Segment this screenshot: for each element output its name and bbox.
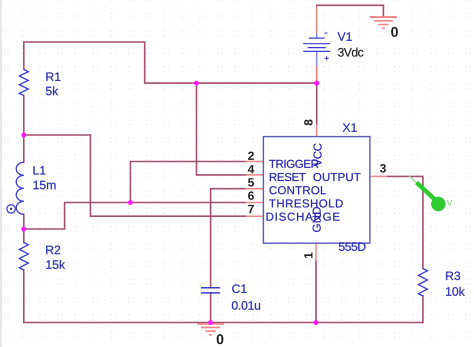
V1 bottom wire pink segment xyxy=(316,66,318,81)
resistor R1 xyxy=(19,70,28,96)
node C1/ground junction xyxy=(208,320,213,325)
value 15k xyxy=(46,260,65,269)
wire node TRI riser to pin2 xyxy=(130,162,245,203)
pin number 6 xyxy=(248,191,254,199)
voltage probe V xyxy=(409,175,446,211)
node TRI riser junction xyxy=(128,200,133,205)
pin 1 stub xyxy=(315,243,317,261)
wire pin8 VCC riser xyxy=(316,83,318,124)
node L1/R2/THR junction xyxy=(21,227,26,232)
pin 4 stub xyxy=(246,174,264,176)
wire node DIS: R1 junction to pin7 xyxy=(24,135,246,216)
pin number 8 xyxy=(304,119,312,125)
pin name THRESHOLD xyxy=(269,199,343,207)
node V+/pin8 junction xyxy=(314,81,319,86)
battery V1 xyxy=(316,33,318,66)
ground 0 (top right) xyxy=(370,17,397,28)
probe label V xyxy=(447,200,453,206)
wire R1 bottom to L1 top xyxy=(23,96,25,163)
label R3 xyxy=(446,271,460,280)
wire node THR: L1/R2 junction to pin6 xyxy=(24,203,246,230)
wire pin3 OUTPUT to R3 top xyxy=(388,176,423,268)
wire R2 bottom + bottom ground rail xyxy=(24,270,423,323)
resistor R3 xyxy=(418,269,427,296)
pin number 3 xyxy=(380,164,386,173)
pin 6 stub xyxy=(246,202,264,204)
pin name CONTROL xyxy=(269,186,326,194)
value 15m xyxy=(34,181,56,190)
capacitor C1 xyxy=(201,288,220,293)
pin 8 stub xyxy=(316,124,318,137)
label 0 (bottom ground) xyxy=(217,334,224,344)
ground 0 (bottom, under C1 junction) xyxy=(197,324,224,335)
pin name DISCHARGE xyxy=(267,213,340,221)
wire R3 bottom to rail xyxy=(422,296,424,323)
minus mark xyxy=(324,32,327,34)
pin 7 stub xyxy=(246,215,264,217)
pin name RESET xyxy=(270,173,306,181)
resistor R2 xyxy=(19,243,28,270)
label R1 xyxy=(46,73,60,81)
plus mark xyxy=(325,56,329,60)
V1 top wire pink segment xyxy=(316,7,318,33)
wire V1 top to ground G1 xyxy=(317,5,384,17)
pin number 1 xyxy=(304,252,312,258)
value 10k xyxy=(446,287,465,296)
pin name VCC xyxy=(313,143,321,166)
value 3Vdc xyxy=(338,48,363,57)
IC X1 555D body xyxy=(263,137,370,244)
pin 5 stub xyxy=(246,188,264,190)
wire pin1 GND to rail xyxy=(315,261,317,323)
inductor phase dot xyxy=(7,205,15,213)
pin 2 stub xyxy=(246,161,264,163)
label X1 xyxy=(343,123,357,131)
wire L1 bottom to R2 top xyxy=(23,214,25,242)
wire pin5 CONTROL to C1 xyxy=(211,189,246,288)
wire V1 bottom to rail junction xyxy=(316,68,318,83)
pin number 7 xyxy=(248,205,254,213)
node pin1/rail junction xyxy=(314,320,319,325)
value 5k xyxy=(46,86,58,95)
value 0.01u xyxy=(232,301,260,310)
page edge xyxy=(0,0,2,347)
pin name OUTPUT xyxy=(313,173,360,181)
label L1 xyxy=(34,166,46,174)
pin name GND xyxy=(313,207,321,232)
wire C1 bottom to ground rail xyxy=(210,293,212,322)
pin 3 stub xyxy=(370,175,388,177)
pin name TRIGGER xyxy=(269,160,318,168)
pin number 2 xyxy=(248,152,254,160)
inductor L1 xyxy=(16,162,24,214)
label V1 xyxy=(338,32,352,40)
pin number 4 xyxy=(248,165,254,173)
pin number 5 xyxy=(248,178,254,186)
node R1/L1/DIS junction xyxy=(21,133,26,138)
label R2 xyxy=(46,246,60,255)
label 0 (top right ground) xyxy=(391,27,398,37)
node RESET riser junction xyxy=(194,81,199,86)
wire R1 top to V+ rail xyxy=(24,42,317,83)
label C1 xyxy=(232,284,246,293)
value 555D xyxy=(339,242,366,251)
wire node RESET riser to pin4 xyxy=(197,83,246,175)
